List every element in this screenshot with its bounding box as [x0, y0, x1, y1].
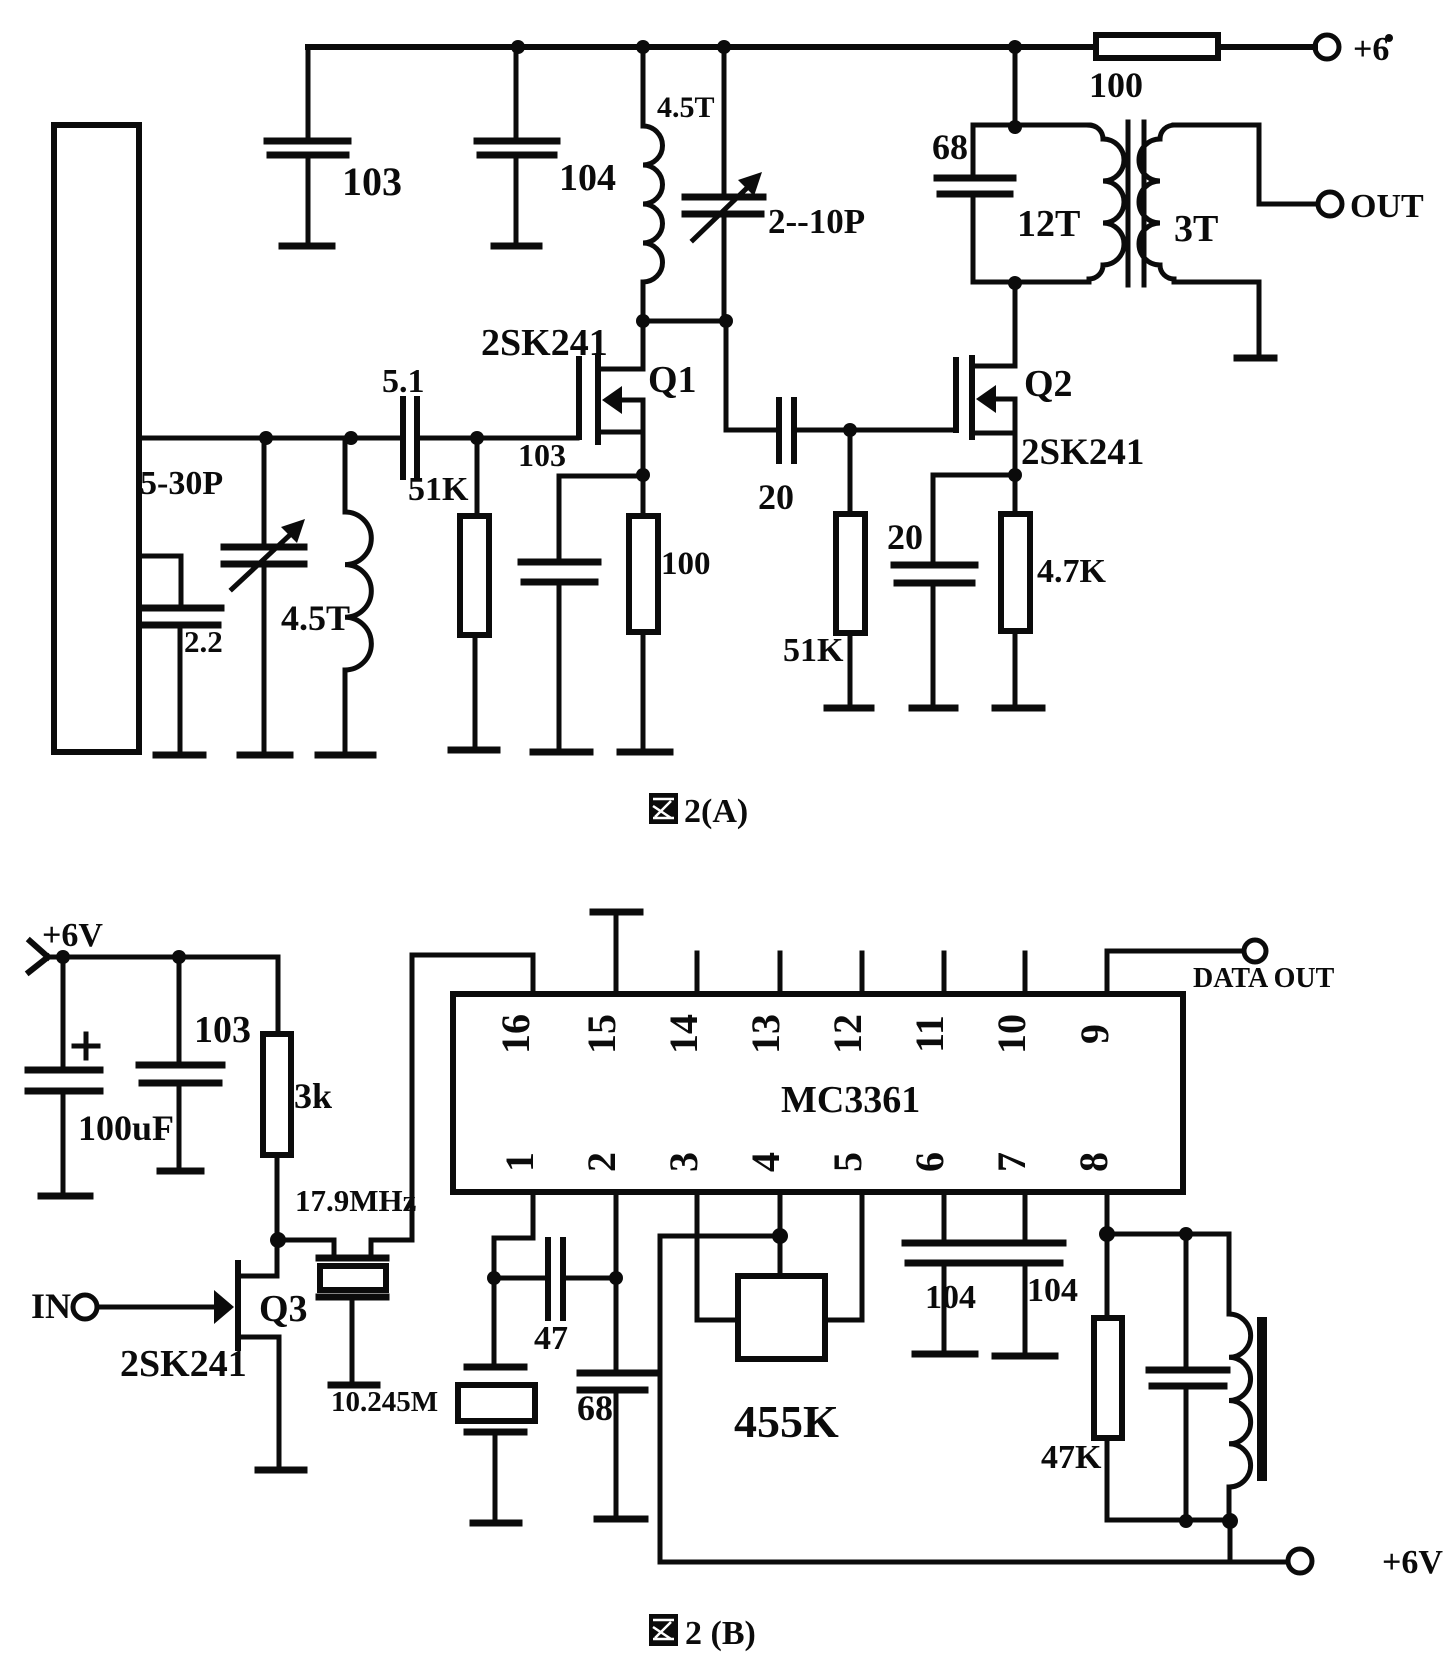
svg-text:2 (B): 2 (B)	[685, 1615, 756, 1652]
wire Q1 gate net	[139, 431, 577, 445]
svg-text:5-30P: 5-30P	[140, 465, 223, 502]
svg-text:12: 12	[825, 1014, 870, 1054]
inductor 4.5T (oscillator drain coil)	[643, 47, 715, 321]
svg-text:51K: 51K	[783, 632, 844, 669]
terminal IN	[31, 1286, 97, 1326]
core bar	[1257, 1317, 1267, 1481]
svg-text:12T: 12T	[1017, 203, 1080, 245]
IC U1 MC3361	[453, 994, 1183, 1192]
inductor 4.5T (input tank)	[281, 438, 373, 755]
wire +6V feed	[46, 950, 278, 1034]
resistor 100 (supply series)	[1089, 35, 1218, 105]
node Q3 drain junction	[270, 1232, 286, 1248]
svg-text:+6: +6	[1353, 31, 1389, 68]
variable capacitor 2--10P	[685, 47, 865, 321]
resistor 4.7K (Q2 source)	[995, 514, 1107, 708]
svg-text:20: 20	[758, 477, 794, 517]
wire pin5 net	[825, 1192, 862, 1320]
resistor 100 (Q1 source)	[620, 516, 711, 752]
wire pin1 net	[487, 1192, 533, 1367]
transistor Q3 2SK241	[97, 1240, 308, 1470]
svg-text:3: 3	[661, 1152, 706, 1172]
transistor Q1 2SK241	[481, 321, 697, 516]
crystal 10.245M	[331, 1367, 535, 1523]
svg-text:1: 1	[497, 1152, 542, 1172]
svg-text:3T: 3T	[1174, 208, 1218, 250]
resistor 51K (Q1 gate)	[408, 438, 497, 750]
wire +6V top rail	[308, 44, 1315, 50]
svg-text:5: 5	[825, 1152, 870, 1172]
svg-text:47K: 47K	[1041, 1439, 1102, 1476]
svg-text:47: 47	[534, 1320, 568, 1357]
capacitor 68 (tank)	[932, 127, 1013, 282]
variable capacitor 5-30P	[140, 438, 305, 755]
svg-text:7: 7	[989, 1152, 1034, 1172]
wire pin2 net	[614, 1192, 619, 1371]
wire feedback node	[636, 314, 733, 328]
resistor 47K	[1041, 1234, 1122, 1520]
capacitor 2.2	[139, 556, 223, 755]
resistor 3k	[263, 1034, 332, 1240]
svg-text:100uF: 100uF	[78, 1108, 174, 1148]
svg-text:IN: IN	[31, 1286, 71, 1326]
svg-text:13: 13	[743, 1014, 788, 1054]
svg-text:68: 68	[577, 1388, 613, 1428]
node Q1 source junction	[636, 468, 650, 482]
svg-text:4.5T: 4.5T	[281, 598, 350, 638]
svg-text:Q1: Q1	[648, 359, 697, 401]
wire +6V bottom rail	[660, 1236, 1288, 1562]
capacitor 20 (interstage series)	[758, 400, 953, 517]
capacitor 20 (Q2 source bypass)	[887, 475, 975, 708]
antenna plate	[54, 125, 139, 752]
pin 15 stub with bar	[593, 912, 640, 994]
svg-text:17.9MHz: 17.9MHz	[295, 1183, 417, 1218]
svg-text:100: 100	[661, 546, 711, 582]
svg-text:MC3361: MC3361	[781, 1079, 920, 1121]
capacitor 68 (fig B)	[577, 1373, 657, 1519]
svg-text:104: 104	[925, 1279, 976, 1316]
terminal OUT	[1318, 188, 1424, 225]
svg-text:2: 2	[579, 1152, 624, 1172]
svg-text:Q2: Q2	[1024, 363, 1073, 405]
svg-text:104: 104	[1027, 1272, 1078, 1309]
svg-text:4: 4	[743, 1152, 788, 1172]
svg-text:OUT: OUT	[1350, 188, 1424, 225]
capacitor 104 (rail bypass)	[477, 47, 616, 246]
svg-text:Q3: Q3	[259, 1288, 308, 1330]
svg-text:5.1: 5.1	[382, 363, 425, 400]
pin 14 stub	[695, 953, 700, 994]
crystal 17.9MHz	[278, 1183, 417, 1385]
svg-text:10: 10	[989, 1014, 1034, 1054]
svg-text:DATA OUT: DATA OUT	[1193, 963, 1335, 994]
capacitor quad tank	[1149, 1234, 1227, 1520]
capacitor 103 (rail bypass)	[267, 47, 402, 246]
svg-text:104: 104	[559, 157, 616, 199]
capacitor 100uF electrolytic	[28, 957, 174, 1196]
caption 图2(A)	[649, 793, 748, 830]
svg-text:2(A): 2(A)	[684, 793, 748, 830]
pin number labels top row	[493, 1014, 1117, 1054]
terminal +6V (fig B bottom)	[1288, 1544, 1443, 1581]
svg-text:9: 9	[1072, 1024, 1117, 1044]
capacitor 47	[494, 1240, 623, 1357]
svg-text:51K: 51K	[408, 471, 469, 508]
svg-text:11: 11	[907, 1015, 952, 1053]
wire pin8 net	[1099, 1192, 1229, 1242]
ceramic filter 455K	[734, 1276, 839, 1447]
svg-text:14: 14	[661, 1014, 706, 1054]
capacitor 5.1 (gate series)	[382, 363, 425, 477]
capacitor 104 (pin7)	[995, 1192, 1078, 1356]
svg-text:20: 20	[887, 517, 923, 557]
svg-text:68: 68	[932, 127, 968, 167]
wire pin16 net	[412, 955, 533, 1240]
svg-text:103: 103	[518, 437, 566, 473]
svg-text:2SK241: 2SK241	[120, 1343, 247, 1385]
wire pin 9 / DATA OUT	[1107, 940, 1335, 994]
pin 10 stub	[1023, 953, 1028, 994]
capacitor 103 (fig B bypass)	[139, 957, 251, 1171]
svg-text:16: 16	[493, 1014, 538, 1054]
svg-text:+6V: +6V	[42, 917, 103, 954]
svg-text:2SK241: 2SK241	[1021, 432, 1144, 473]
pin 12 stub	[860, 953, 865, 994]
svg-text:100: 100	[1089, 65, 1143, 105]
node rail junctions	[511, 40, 1022, 54]
wire source branch	[933, 473, 1015, 478]
svg-text:6: 6	[907, 1152, 952, 1172]
wire pin3 net	[697, 1192, 738, 1320]
svg-text:15: 15	[579, 1014, 624, 1054]
svg-text:+6V: +6V	[1382, 1544, 1443, 1581]
inductor quad coil	[1229, 1234, 1251, 1521]
node Q2 gate junction	[843, 423, 857, 437]
svg-text:2--10P: 2--10P	[768, 202, 865, 241]
capacitor 104 (pin6)	[905, 1192, 1063, 1354]
transistor Q2 2SK241	[956, 283, 1144, 514]
svg-text:10.245M: 10.245M	[331, 1386, 438, 1418]
svg-text:2SK241: 2SK241	[481, 322, 608, 364]
terminal +6V (fig B input)	[29, 917, 103, 972]
terminal +6V (fig A)	[1315, 31, 1393, 68]
svg-text:2.2: 2.2	[184, 624, 223, 659]
svg-text:3k: 3k	[294, 1076, 332, 1116]
svg-text:103: 103	[342, 159, 402, 204]
node Q2 source junction	[1008, 468, 1022, 482]
wire quad bottom link	[1107, 1513, 1238, 1562]
transformer primary 12T	[973, 47, 1124, 290]
svg-text:8: 8	[1071, 1152, 1116, 1172]
svg-text:455K: 455K	[734, 1396, 839, 1447]
wire pin4 net	[772, 1192, 788, 1276]
pin 13 stub	[778, 953, 783, 994]
wire Q2 gate feed	[726, 321, 779, 430]
caption 图2 (B)	[649, 1614, 756, 1652]
svg-text:103: 103	[194, 1009, 251, 1051]
capacitor 103 (Q1 source bypass)	[518, 437, 598, 752]
wire source branch	[559, 476, 643, 560]
svg-text:4.7K: 4.7K	[1037, 553, 1107, 590]
pin 11 stub	[942, 953, 947, 994]
pin number labels bottom row	[497, 1152, 1116, 1172]
transformer secondary 3T	[1139, 125, 1318, 358]
transformer core	[1128, 122, 1144, 285]
svg-text:4.5T: 4.5T	[657, 91, 715, 124]
resistor 51K (Q2 gate)	[783, 430, 871, 708]
